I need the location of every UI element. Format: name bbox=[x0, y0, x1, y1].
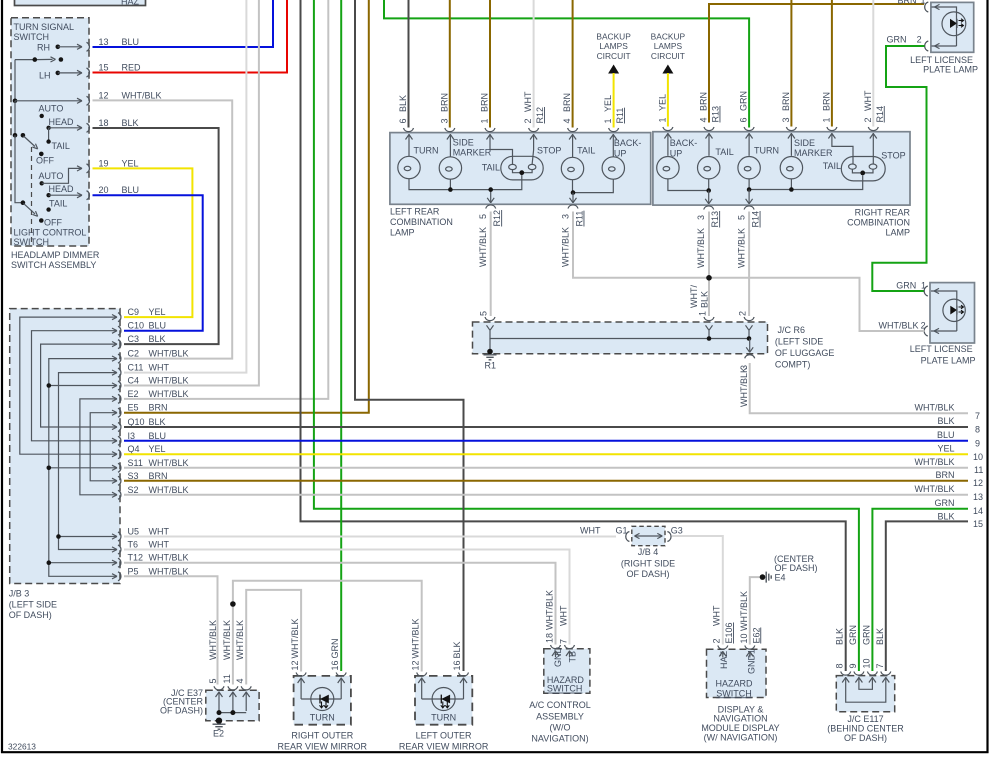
nav hazard pin 10 bracket E62 bbox=[739, 591, 762, 658]
svg-text:9: 9 bbox=[848, 663, 858, 668]
left lamp side marker bulb bbox=[439, 157, 461, 179]
svg-text:12: 12 bbox=[290, 660, 300, 670]
svg-text:1: 1 bbox=[603, 118, 613, 123]
svg-text:WHT/BLK: WHT/BLK bbox=[149, 566, 189, 576]
J/B3 pin T6 bbox=[118, 540, 169, 555]
E37 pin 11 bracket bbox=[222, 620, 238, 690]
svg-text:BACKUP: BACKUP bbox=[651, 32, 686, 42]
svg-text:OFF: OFF bbox=[44, 218, 62, 228]
wire 13 BLU to top bbox=[93, 0, 274, 47]
upper left license plate lamp box bbox=[931, 2, 974, 52]
svg-text:R13: R13 bbox=[711, 106, 721, 123]
svg-text:10: 10 bbox=[861, 658, 871, 668]
svg-text:4: 4 bbox=[699, 117, 709, 122]
E117 pin 10 bracket bbox=[861, 625, 877, 675]
svg-text:MARKER: MARKER bbox=[794, 148, 833, 158]
svg-text:1: 1 bbox=[921, 281, 926, 291]
switch RH contact bbox=[56, 44, 83, 49]
switch common bus bbox=[13, 60, 82, 136]
svg-text:20: 20 bbox=[99, 185, 109, 195]
J/B3 pin P5 bbox=[118, 566, 189, 581]
display & navigation label bbox=[701, 704, 779, 742]
svg-text:14: 14 bbox=[973, 506, 983, 516]
svg-text:WHT/BLK: WHT/BLK bbox=[208, 620, 218, 660]
left lamp pin 3 bracket bbox=[439, 93, 455, 132]
svg-text:C3: C3 bbox=[128, 334, 140, 344]
backup lamps circuit arrow right bbox=[651, 32, 686, 74]
svg-text:BACK-: BACK- bbox=[614, 138, 642, 148]
left lamp label bbox=[390, 207, 453, 238]
svg-text:BACK-: BACK- bbox=[670, 138, 698, 148]
svg-text:RIGHT OUTER: RIGHT OUTER bbox=[291, 731, 353, 741]
left mirror pin 12 bracket bbox=[410, 618, 426, 676]
J/C R6 pin 1 bracket bbox=[698, 311, 715, 321]
svg-text:E2: E2 bbox=[128, 389, 139, 399]
svg-text:(LEFT SIDE: (LEFT SIDE bbox=[775, 337, 823, 347]
wire GRN to right mirror pin 16 bbox=[340, 0, 342, 671]
svg-text:LH: LH bbox=[39, 71, 51, 81]
nav hazard switch box bbox=[707, 649, 767, 698]
J/B3 internal WHT/BLK bus 2 bbox=[80, 396, 117, 497]
svg-text:BLU: BLU bbox=[937, 430, 955, 440]
svg-text:2: 2 bbox=[917, 35, 922, 45]
backup lamps circuit arrow left bbox=[596, 32, 631, 74]
J/B4 G1 bracket bbox=[616, 526, 630, 542]
J/B3 pin U5 bbox=[118, 527, 169, 542]
wire BLK to left mirror pin 16 bbox=[355, 0, 464, 671]
border frame left bbox=[1, 0, 3, 753]
svg-text:E5: E5 bbox=[128, 403, 139, 413]
svg-text:10: 10 bbox=[739, 633, 749, 643]
light control switch lower section bbox=[15, 135, 82, 223]
svg-text:5: 5 bbox=[478, 214, 488, 219]
svg-text:12: 12 bbox=[973, 478, 983, 488]
svg-text:STOP: STOP bbox=[537, 146, 561, 156]
svg-text:8: 8 bbox=[835, 663, 845, 668]
wire YEL left lamp backup bbox=[613, 73, 615, 128]
left outer rear view mirror box bbox=[415, 676, 472, 725]
J/C E117 box bbox=[836, 676, 894, 712]
svg-text:SWITCH ASSEMBLY: SWITCH ASSEMBLY bbox=[11, 260, 96, 270]
svg-text:TAIL: TAIL bbox=[49, 199, 67, 209]
E4 ground bbox=[760, 572, 786, 583]
right lamp pin 4 bracket R13 bbox=[699, 92, 721, 131]
right lamp backup bulb bbox=[657, 157, 679, 179]
svg-text:WHT: WHT bbox=[580, 526, 601, 536]
svg-text:BRN: BRN bbox=[149, 403, 168, 413]
wire WHT G3 to nav hazard pin 2 bbox=[672, 536, 723, 645]
svg-text:E62: E62 bbox=[751, 627, 761, 643]
svg-text:WHT: WHT bbox=[712, 605, 722, 626]
wire 20 BLU to C10 bbox=[93, 195, 203, 331]
wire 11 WHT/BLK S11 bbox=[124, 467, 968, 469]
svg-text:2: 2 bbox=[863, 117, 873, 122]
right lamp pin 2 bracket R14 bbox=[863, 90, 885, 131]
wire GRN license run bbox=[872, 46, 926, 291]
svg-text:OF DASH): OF DASH) bbox=[160, 705, 203, 715]
left lamp tail bulb bbox=[561, 157, 583, 179]
right lamp pin 3 bracket bbox=[781, 92, 797, 131]
E117 pin 7 bracket bbox=[875, 628, 891, 675]
svg-text:MARKER: MARKER bbox=[453, 148, 492, 158]
switch LH contact bbox=[56, 70, 83, 75]
svg-text:BLK: BLK bbox=[149, 417, 166, 427]
R1 ground bbox=[484, 349, 497, 371]
svg-text:LEFT OUTER: LEFT OUTER bbox=[416, 731, 472, 741]
svg-text:WHT: WHT bbox=[149, 363, 170, 373]
svg-text:BLU: BLU bbox=[122, 37, 140, 47]
J/B3 internal WHT bus bbox=[56, 370, 117, 552]
svg-text:R12: R12 bbox=[535, 107, 545, 124]
svg-text:YEL: YEL bbox=[603, 95, 613, 112]
J/B3 pin C10 bbox=[118, 321, 166, 336]
right edge wire color labels bbox=[914, 403, 954, 522]
svg-text:NAVIGATION: NAVIGATION bbox=[713, 714, 767, 724]
junction dot R13/R11 bbox=[706, 275, 712, 281]
svg-text:7: 7 bbox=[975, 411, 980, 421]
J/B3 pin C9 bbox=[118, 307, 166, 322]
wire GRN 14 right bbox=[872, 509, 968, 671]
svg-text:WHT/BLK: WHT/BLK bbox=[149, 389, 189, 399]
svg-text:WHT: WHT bbox=[863, 90, 873, 111]
svg-text:E106: E106 bbox=[724, 622, 734, 643]
svg-text:WHT/BLK: WHT/BLK bbox=[149, 458, 189, 468]
svg-text:11: 11 bbox=[222, 674, 232, 683]
svg-text:WHT/BLK: WHT/BLK bbox=[149, 485, 189, 495]
J/B3 pin S3 bbox=[118, 471, 168, 486]
wire WHT/BLK R13 to J/C R6 pin 1 bbox=[708, 212, 710, 317]
svg-text:1: 1 bbox=[698, 311, 708, 316]
wire BRN E5 to top bbox=[124, 0, 369, 413]
svg-text:BLK: BLK bbox=[149, 334, 166, 344]
svg-text:6: 6 bbox=[739, 117, 749, 122]
junction dot E37 pin 11 wire bbox=[230, 601, 236, 607]
A/C hazard pin 7 bracket bbox=[559, 605, 575, 657]
pin 19 bbox=[87, 159, 139, 173]
svg-text:11: 11 bbox=[974, 465, 983, 475]
svg-text:LEFT LICENSE: LEFT LICENSE bbox=[910, 344, 973, 354]
right outer rear view mirror box bbox=[294, 676, 351, 725]
svg-text:4: 4 bbox=[562, 118, 572, 123]
svg-text:WHT/BLK: WHT/BLK bbox=[410, 618, 420, 658]
svg-text:YEL: YEL bbox=[937, 443, 954, 453]
svg-text:BLK: BLK bbox=[875, 628, 885, 645]
pin 20 bbox=[87, 185, 140, 200]
J/B3 internal YEL bus bbox=[20, 315, 117, 457]
svg-text:YEL: YEL bbox=[149, 307, 166, 317]
svg-text:7: 7 bbox=[875, 663, 885, 668]
svg-text:5: 5 bbox=[208, 678, 218, 683]
svg-text:COMPT): COMPT) bbox=[775, 360, 811, 370]
svg-text:WHT/BLK: WHT/BLK bbox=[122, 91, 162, 101]
left lamp pin 1 R11 bracket bbox=[603, 95, 625, 132]
svg-text:3: 3 bbox=[781, 117, 791, 122]
svg-text:TURN SIGNAL: TURN SIGNAL bbox=[14, 22, 75, 32]
svg-text:G1: G1 bbox=[616, 526, 628, 536]
svg-text:WHT/BLK: WHT/BLK bbox=[222, 620, 232, 660]
svg-text:HEAD: HEAD bbox=[49, 117, 75, 127]
svg-text:R11: R11 bbox=[575, 211, 585, 227]
pin 13 bbox=[87, 37, 140, 51]
svg-text:BLK: BLK bbox=[398, 95, 408, 112]
right lamp bottom pin 5 R14 bbox=[737, 206, 761, 268]
svg-text:WHT/BLK: WHT/BLK bbox=[914, 457, 954, 467]
svg-text:ASSEMBLY: ASSEMBLY bbox=[536, 711, 584, 721]
svg-text:A/C CONTROL: A/C CONTROL bbox=[529, 700, 591, 710]
svg-text:GRN: GRN bbox=[935, 498, 955, 508]
J/C E37 label bbox=[160, 688, 204, 716]
upper license lamp pin 2 bracket bbox=[887, 35, 929, 52]
right lamp label bbox=[847, 208, 910, 238]
svg-text:BLK: BLK bbox=[835, 628, 845, 645]
svg-text:BLK: BLK bbox=[452, 641, 462, 658]
right lamp stop/tail dual bulb bbox=[841, 157, 885, 181]
svg-text:16: 16 bbox=[330, 660, 340, 670]
wire 19 YEL to C9 bbox=[93, 168, 193, 317]
svg-text:PLATE LAMP: PLATE LAMP bbox=[921, 356, 976, 366]
svg-text:WHT/BLK: WHT/BLK bbox=[739, 367, 749, 407]
svg-text:BLK: BLK bbox=[700, 291, 710, 308]
svg-text:2: 2 bbox=[921, 321, 926, 331]
E117 pin 9 bracket bbox=[848, 625, 864, 675]
svg-text:C2: C2 bbox=[128, 349, 140, 359]
svg-text:GRN: GRN bbox=[887, 35, 907, 45]
svg-text:R11: R11 bbox=[615, 108, 625, 124]
svg-text:8: 8 bbox=[975, 425, 980, 435]
svg-text:C10: C10 bbox=[128, 321, 145, 331]
svg-text:GRN: GRN bbox=[896, 281, 916, 291]
svg-text:T12: T12 bbox=[128, 553, 144, 563]
wire WHT/BLK E37 pin 4 to right mirror pin 12 bbox=[246, 590, 301, 685]
left lamp pin 4 bracket bbox=[562, 93, 578, 132]
left lamp turn bulb bbox=[398, 156, 420, 178]
svg-text:LAMPS: LAMPS bbox=[599, 41, 628, 51]
wire WHT top to C11 bbox=[124, 0, 246, 373]
svg-text:LAMP: LAMP bbox=[885, 228, 910, 238]
svg-text:WHT/BLK: WHT/BLK bbox=[149, 376, 189, 386]
right rear combination lamp box bbox=[653, 132, 910, 205]
svg-text:R14: R14 bbox=[751, 211, 761, 228]
svg-text:BLK: BLK bbox=[122, 118, 139, 128]
wire U5 WHT to J/B4 G1 bbox=[124, 536, 616, 538]
svg-text:BRN: BRN bbox=[821, 92, 831, 111]
wire YEL right lamp backup bbox=[667, 73, 669, 127]
svg-text:TURN: TURN bbox=[431, 712, 456, 722]
svg-text:LAMP: LAMP bbox=[390, 228, 415, 238]
svg-text:SWITCH: SWITCH bbox=[14, 237, 50, 247]
nav hazard pin 2 bracket E106 bbox=[712, 605, 735, 657]
svg-text:SWITCH: SWITCH bbox=[716, 688, 752, 698]
J/B3 pin C11 bbox=[118, 363, 169, 378]
svg-text:WHT/BLK: WHT/BLK bbox=[914, 484, 954, 494]
wire WHT to left lamp pin 2 bbox=[533, 0, 535, 128]
svg-text:WHT/BLK: WHT/BLK bbox=[235, 620, 245, 660]
svg-text:5: 5 bbox=[479, 311, 489, 316]
svg-text:S3: S3 bbox=[128, 471, 139, 481]
svg-text:OF DASH): OF DASH) bbox=[775, 563, 818, 573]
wire WHT/BLK top to C4 bbox=[124, 0, 259, 386]
lower license lamp pin 1 bracket bbox=[896, 281, 928, 297]
svg-text:C11: C11 bbox=[128, 363, 144, 373]
svg-text:WHT/BLK: WHT/BLK bbox=[879, 321, 919, 331]
svg-text:WHT: WHT bbox=[559, 605, 569, 626]
svg-text:WHT/BLK: WHT/BLK bbox=[149, 349, 189, 359]
right lamp internal wires bbox=[664, 133, 876, 204]
svg-text:TURN: TURN bbox=[310, 712, 335, 722]
left mirror label bbox=[399, 731, 489, 752]
J/B3 pin C2 bbox=[118, 349, 189, 364]
svg-text:GRN: GRN bbox=[848, 625, 858, 645]
J/B4 box bbox=[632, 526, 665, 545]
wire 12 BRN S3 bbox=[124, 480, 968, 482]
svg-text:C4: C4 bbox=[128, 376, 140, 386]
svg-text:10: 10 bbox=[973, 452, 983, 462]
svg-text:YEL: YEL bbox=[122, 159, 139, 169]
border frame bottom bbox=[1, 751, 989, 753]
wire WHT/BLK R14 to J/C R6 pin 2 bbox=[748, 212, 750, 317]
svg-text:BRN: BRN bbox=[480, 93, 490, 112]
svg-text:E2: E2 bbox=[213, 729, 224, 739]
svg-text:SWITCH: SWITCH bbox=[547, 684, 583, 694]
svg-text:J/B 3: J/B 3 bbox=[9, 589, 30, 599]
E37 pin 5 bracket bbox=[208, 620, 224, 690]
wire 10 YEL Q4 bbox=[124, 453, 968, 455]
svg-text:R1: R1 bbox=[485, 361, 497, 371]
J/C R6 pin 2 bracket bbox=[738, 311, 755, 321]
svg-text:15: 15 bbox=[973, 519, 983, 529]
svg-text:T6: T6 bbox=[128, 540, 139, 550]
svg-text:OF DASH): OF DASH) bbox=[626, 569, 669, 579]
svg-text:TURN: TURN bbox=[754, 146, 779, 156]
pin 18 bbox=[87, 118, 139, 132]
wire WHT/BLK nav hazard pin 10 to E4 bbox=[750, 577, 763, 644]
svg-text:RH: RH bbox=[37, 43, 50, 53]
light control switch upper section bbox=[13, 114, 82, 156]
svg-text:LEFT LICENSE: LEFT LICENSE bbox=[910, 55, 973, 65]
svg-text:(LEFT SIDE: (LEFT SIDE bbox=[9, 600, 57, 610]
svg-text:C9: C9 bbox=[128, 307, 140, 317]
svg-text:Q4: Q4 bbox=[128, 444, 140, 454]
wire 15 RED to top bbox=[93, 0, 288, 73]
svg-text:BRN: BRN bbox=[149, 471, 168, 481]
wire P5 WHT/BLK to E37 pin 5 bbox=[124, 576, 218, 684]
J/B3 pin Q4 bbox=[118, 444, 166, 459]
svg-text:YEL: YEL bbox=[149, 444, 166, 454]
J/B4 label bbox=[621, 547, 675, 579]
svg-text:GRN: GRN bbox=[861, 625, 871, 645]
svg-text:WHT/BLK: WHT/BLK bbox=[561, 227, 571, 267]
svg-text:2: 2 bbox=[712, 638, 722, 643]
wire BRN to left lamp pin 3 bbox=[449, 0, 451, 128]
svg-text:COMBINATION: COMBINATION bbox=[847, 218, 910, 228]
turn signal / light control switch assembly box bbox=[11, 18, 89, 247]
svg-text:15: 15 bbox=[99, 63, 109, 73]
svg-text:STOP: STOP bbox=[881, 150, 905, 160]
left rear combination lamp box bbox=[390, 133, 651, 205]
J/B3 pin C3 bbox=[118, 334, 166, 349]
wire 8 BLK Q10 bbox=[124, 426, 968, 428]
svg-text:HAZARD: HAZARD bbox=[715, 678, 753, 688]
right mirror pin 16 bracket bbox=[330, 639, 346, 677]
svg-text:322613: 322613 bbox=[8, 742, 36, 752]
svg-text:J/C R6: J/C R6 bbox=[778, 325, 806, 335]
svg-text:BLK: BLK bbox=[937, 512, 954, 522]
svg-text:3: 3 bbox=[696, 215, 706, 220]
svg-text:HEADLAMP DIMMER: HEADLAMP DIMMER bbox=[11, 250, 100, 260]
svg-text:AUTO: AUTO bbox=[39, 171, 64, 181]
svg-text:BRN: BRN bbox=[439, 93, 449, 112]
J/C R6 pin 3 bracket bottom bbox=[739, 355, 755, 407]
hazard switch partial box top bbox=[15, 0, 146, 7]
wire WHT/BLK R12 to J/C R6 pin 5 bbox=[490, 212, 492, 317]
svg-text:1: 1 bbox=[821, 117, 831, 122]
left lamp bottom pin 3 R11 bbox=[561, 205, 585, 267]
border frame right bbox=[986, 0, 988, 753]
svg-text:13: 13 bbox=[99, 37, 109, 47]
svg-text:5: 5 bbox=[737, 215, 747, 220]
svg-text:CIRCUIT: CIRCUIT bbox=[597, 51, 631, 61]
svg-text:18: 18 bbox=[545, 633, 555, 643]
right lamp turn bulb bbox=[738, 157, 760, 179]
J/B3 pin E2 bbox=[118, 389, 189, 404]
svg-text:WHT/BLK: WHT/BLK bbox=[478, 227, 488, 267]
svg-text:WHT/BLK: WHT/BLK bbox=[739, 591, 749, 631]
svg-text:E4: E4 bbox=[775, 573, 786, 583]
svg-text:13: 13 bbox=[973, 492, 983, 502]
wire GRN turn to right lamp pin 6 bbox=[384, 0, 749, 128]
J/B3 label bbox=[9, 589, 57, 621]
J/B 3 box bbox=[10, 309, 120, 584]
wire BRN to left lamp pin 1 bbox=[489, 0, 491, 128]
wire 13 WHT/BLK S2 bbox=[124, 494, 968, 496]
svg-text:7: 7 bbox=[559, 639, 569, 644]
J/B3 internal BLK bus bbox=[41, 342, 117, 430]
svg-text:Q10: Q10 bbox=[128, 417, 145, 427]
svg-text:S11: S11 bbox=[128, 458, 143, 468]
wire WHT/BLK E37 pin 11 to left mirror pin 12 bbox=[233, 581, 422, 685]
svg-text:I3: I3 bbox=[128, 431, 136, 441]
svg-text:BRN: BRN bbox=[699, 92, 709, 111]
svg-text:GRN: GRN bbox=[739, 91, 749, 111]
wire T6 WHT to A/C hazard pin 7 bbox=[124, 550, 570, 645]
wire GRN 14 left bbox=[314, 0, 859, 671]
svg-text:BLU: BLU bbox=[149, 321, 167, 331]
svg-text:GND: GND bbox=[553, 647, 563, 668]
svg-text:TAIL: TAIL bbox=[715, 147, 733, 157]
right edge wire numbers bbox=[973, 411, 983, 529]
right lamp tail bulb bbox=[698, 157, 720, 179]
wire BRN to left lamp pin 4 bbox=[572, 0, 574, 128]
J/B3 pin C4 bbox=[118, 376, 189, 391]
svg-text:TAIL: TAIL bbox=[482, 163, 500, 173]
wire 18 BLK to C3 bbox=[93, 128, 219, 344]
svg-text:2: 2 bbox=[738, 311, 748, 316]
wire BRN to right lamp pin 1 bbox=[831, 0, 833, 127]
svg-text:BRN: BRN bbox=[781, 92, 791, 111]
J/C R6 label bbox=[775, 325, 835, 370]
right mirror pin 12 bracket bbox=[290, 618, 306, 676]
svg-text:R14: R14 bbox=[875, 106, 885, 123]
svg-text:R12: R12 bbox=[492, 210, 502, 227]
A/C hazard pin 18 bracket bbox=[545, 590, 561, 657]
svg-text:YEL: YEL bbox=[657, 94, 667, 111]
J/B3 pin E5 bbox=[118, 403, 168, 418]
right lamp bottom pin 3 R13 bbox=[696, 206, 720, 268]
wire T12 WHT/BLK to A/C hazard pin 18 bbox=[124, 563, 556, 645]
left lamp internal wires bbox=[406, 134, 617, 203]
svg-text:1: 1 bbox=[657, 117, 667, 122]
svg-text:NAVIGATION): NAVIGATION) bbox=[531, 734, 588, 744]
